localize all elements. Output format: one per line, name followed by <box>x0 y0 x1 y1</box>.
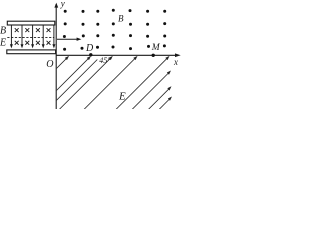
svg-text:O: O <box>46 59 53 70</box>
E field line C2 (ends mid-region) <box>148 88 170 110</box>
trajectory arrow into dots region <box>57 38 79 40</box>
E-field line 2 with down arrow <box>21 25 23 46</box>
E field line B1 (short) <box>55 60 97 102</box>
svg-text:D: D <box>85 43 94 54</box>
E field line C3 (corner) <box>159 98 171 110</box>
point D marker <box>89 53 92 56</box>
E field line A5 <box>116 57 168 109</box>
E field line A4 <box>84 57 136 109</box>
svg-text:M: M <box>151 43 161 53</box>
E field line C1 (ends mid-region) <box>132 72 170 110</box>
B-field x symbols row 2 <box>15 41 51 45</box>
E-field line 5 with down arrow <box>53 25 55 46</box>
E field line A3 <box>59 57 111 109</box>
E-field line 4 with down arrow <box>42 25 44 46</box>
B-field x symbols row 1 <box>15 28 51 32</box>
top capacitor plate <box>7 21 55 25</box>
E field line A2 ends at point D <box>55 57 90 92</box>
y-axis <box>55 4 57 109</box>
x-axis <box>56 54 176 56</box>
svg-text:B: B <box>0 26 6 37</box>
x-axis arrowhead <box>175 53 181 57</box>
svg-text:E: E <box>118 91 126 103</box>
svg-text:y: y <box>60 0 65 9</box>
y-axis arrowhead <box>54 3 58 8</box>
E-field line 1 with down arrow <box>10 25 12 46</box>
point M marker <box>152 54 155 57</box>
B-field dots grid (field out of page) <box>63 9 166 51</box>
dashed center line in plates <box>7 37 54 39</box>
svg-text:45°: 45° <box>99 56 111 65</box>
svg-text:x: x <box>173 57 178 67</box>
bottom capacitor plate <box>7 50 56 54</box>
E field line A1 <box>55 57 68 70</box>
E-field line 3 with down arrow <box>32 25 34 46</box>
svg-text:B: B <box>118 14 124 24</box>
svg-text:E: E <box>0 38 6 49</box>
